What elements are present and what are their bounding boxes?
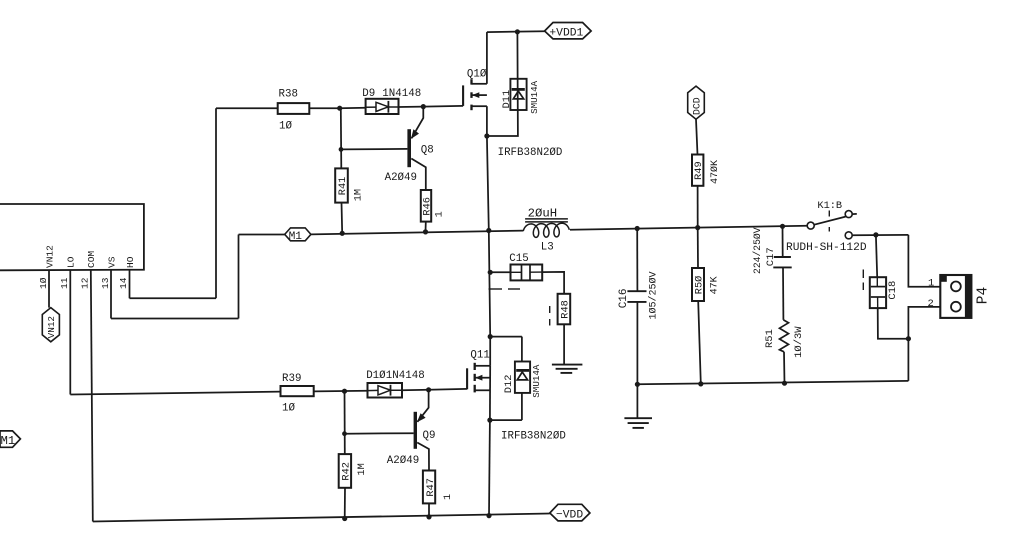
connector P4 black bar	[965, 276, 971, 318]
wire Q11 source to -VDD rail	[488, 420, 491, 515]
capacitor C15	[511, 265, 543, 281]
power port -VDD (hexagon)	[550, 504, 590, 521]
junction D10 right	[427, 388, 431, 392]
wire Q10 source column	[486, 106, 488, 136]
svg-text:VN12: VN12	[46, 316, 57, 338]
svg-text:−VDD: −VDD	[556, 509, 583, 521]
wire DCD to R49	[696, 119, 698, 154]
resistor R48	[558, 294, 571, 325]
junction R42 on -VDD rail	[343, 516, 347, 520]
svg-text:R47: R47	[425, 478, 437, 497]
svg-text:C17: C17	[765, 247, 777, 266]
svg-text:P4: P4	[976, 287, 992, 304]
junction C17 on M1 row	[780, 224, 784, 228]
svg-text:VS: VS	[106, 256, 117, 268]
wire D12 stem	[521, 337, 523, 362]
svg-text:47ØK: 47ØK	[709, 160, 721, 184]
svg-text:Q11: Q11	[470, 349, 489, 361]
wire +VDD1 row	[487, 30, 545, 33]
wire R41 top	[340, 108, 343, 168]
svg-text:+VDD1: +VDD1	[549, 27, 583, 39]
dashed mark left of C18	[862, 270, 864, 279]
diode D11 SMU14A	[510, 79, 526, 110]
wire C16 to ground	[636, 384, 638, 418]
relay K1:B NO stub	[852, 213, 857, 215]
Q11 source lead	[475, 389, 490, 391]
resistor R41	[335, 168, 348, 202]
Q11 body lead	[475, 377, 490, 379]
svg-text:VN12: VN12	[44, 245, 55, 268]
wire Q8 emitter	[412, 107, 424, 139]
junction R42 top tap	[342, 389, 346, 393]
wire pin14 HO down	[129, 270, 131, 299]
inductor L3 core bars	[525, 218, 568, 220]
svg-text:R42: R42	[341, 462, 353, 481]
junction node D9 left	[338, 106, 342, 110]
connector P4 pin1 circle	[951, 282, 961, 292]
junction Q8 base tap	[339, 148, 343, 152]
svg-text:R51: R51	[764, 329, 776, 348]
svg-text:A2Ø49: A2Ø49	[387, 455, 419, 467]
wire D11 stem	[487, 32, 518, 136]
svg-text:RUDH-SH-112D: RUDH-SH-112D	[786, 242, 867, 254]
transistor Q8 base bar	[407, 129, 411, 167]
svg-text:13: 13	[100, 277, 111, 289]
inductor L3	[523, 223, 569, 237]
transistor Q9 base bar	[414, 412, 417, 449]
Q10 body lead	[472, 94, 487, 96]
wire D9 anode	[340, 107, 366, 109]
svg-text:R48: R48	[560, 300, 572, 319]
junction C18 top	[874, 233, 878, 237]
junction R50 on bottom rail	[699, 382, 703, 386]
junction C16 rail	[635, 382, 639, 386]
wire Q8 base	[341, 148, 407, 151]
svg-text:DCD: DCD	[692, 97, 703, 115]
Q11 drain lead	[475, 365, 491, 367]
resistor R50	[692, 268, 704, 301]
wire R39 left from LO	[70, 392, 280, 395]
wire M1 column to Q11	[489, 231, 490, 366]
junction C18 bottom on riser	[906, 337, 910, 341]
junction R41 on M1 row	[340, 231, 344, 235]
junction Q9 base tap	[343, 432, 347, 436]
wire R51 bottom	[783, 352, 786, 383]
diode D10 1N4148	[368, 383, 403, 398]
wire P4 pin2 to bottom rail	[908, 307, 940, 381]
wire R46 bottom	[425, 222, 427, 232]
svg-text:1M: 1M	[356, 463, 368, 475]
svg-text:HO: HO	[125, 256, 136, 268]
junction Q11 on -VDD rail	[487, 514, 491, 518]
svg-text:C18: C18	[887, 281, 899, 300]
wire gate lead Q10	[423, 105, 463, 108]
relay K1:B common contact	[807, 222, 814, 229]
wire C16 bottom	[636, 302, 638, 384]
svg-text:1Ø/3W: 1Ø/3W	[793, 326, 805, 358]
wire D12 to Q11 source	[490, 419, 522, 421]
arrow Q9 emitter	[417, 413, 426, 422]
svg-text:1N4148: 1N4148	[382, 88, 421, 100]
wire pin12 COM down	[91, 270, 93, 522]
wire R39 to D10	[314, 390, 368, 393]
svg-text:K1:B: K1:B	[817, 200, 842, 212]
wire VS riser	[238, 235, 240, 319]
wire D12 top branch	[490, 336, 522, 338]
svg-text:1: 1	[434, 211, 446, 217]
wire R42 top	[344, 391, 346, 454]
relay K1:B NC contact	[845, 232, 852, 239]
relay K1:B NO contact	[845, 211, 852, 218]
wire relay output row	[852, 234, 908, 236]
relay K1:B armature	[814, 217, 845, 225]
arrow Q11 body	[475, 375, 482, 381]
svg-text:Q1Ø: Q1Ø	[467, 69, 487, 81]
junction R49 R50 on M1 row	[696, 226, 700, 230]
resistor R46	[421, 190, 431, 222]
svg-text:2ØuH: 2ØuH	[528, 206, 558, 220]
svg-text:C16: C16	[618, 288, 630, 308]
svg-text:1M: 1M	[352, 189, 364, 201]
wire Q11 body-source column	[489, 366, 491, 420]
wire gate lead Q11	[429, 388, 468, 391]
capacitor C16	[627, 290, 646, 292]
junction D12 branch	[488, 335, 492, 339]
resistor R39	[281, 386, 314, 396]
wire R48 to ground	[563, 324, 565, 364]
svg-text:R5Ø: R5Ø	[694, 276, 706, 295]
transistor Q10 channel	[470, 79, 472, 84]
ground symbol at C16	[624, 417, 652, 419]
svg-text:COM: COM	[86, 251, 97, 268]
junction R47 on -VDD rail	[427, 515, 431, 519]
svg-text:D12: D12	[503, 375, 515, 394]
svg-text:11: 11	[59, 277, 70, 289]
diode D12 SMU14A	[515, 362, 530, 393]
wire R41 bottom	[341, 203, 344, 234]
wire C15 right to R48	[542, 272, 564, 294]
wire pin13 VS down	[110, 270, 112, 319]
svg-text:12: 12	[80, 277, 91, 289]
wire C15 left	[490, 271, 510, 273]
svg-text:IRFB38N2ØD: IRFB38N2ØD	[501, 431, 566, 443]
wire R42 bottom	[344, 488, 346, 519]
svg-text:SMU14A: SMU14A	[529, 80, 540, 114]
svg-text:1Ø5/25ØV: 1Ø5/25ØV	[647, 271, 659, 319]
wire C17 top	[782, 226, 784, 257]
resistor R42	[339, 454, 351, 488]
arrow Q8 emitter	[411, 129, 419, 139]
wire R47 bottom	[428, 503, 430, 517]
svg-text:224/25ØV: 224/25ØV	[752, 227, 763, 274]
net label DCD (hexagon)	[688, 86, 705, 119]
junction Q11 source	[488, 418, 492, 422]
connector P4 body	[940, 275, 971, 318]
svg-text:2: 2	[928, 298, 934, 310]
dashed mark under C15	[489, 288, 503, 290]
wire Q9 collector	[417, 443, 429, 471]
wire pin11 LO down	[69, 270, 71, 395]
resistor R38	[278, 103, 310, 114]
wire VS horizontal	[111, 318, 239, 320]
wire bottom rail	[637, 381, 908, 384]
junction Q10 source / D11	[485, 134, 489, 138]
svg-text:IRFB38N2ØD: IRFB38N2ØD	[498, 147, 563, 159]
wire riser to M1 label	[239, 234, 285, 236]
wire HO riser to R38	[215, 108, 217, 298]
junction node D9 right	[421, 105, 425, 109]
wire Q9 base	[345, 432, 414, 435]
capacitor C18	[870, 277, 886, 308]
resistor R49	[692, 155, 703, 186]
junction C15 left	[488, 270, 492, 274]
wire D9 cathode to gate Q10	[399, 106, 424, 108]
ground symbol at R48	[552, 364, 583, 366]
svg-text:1Ø: 1Ø	[279, 120, 292, 132]
wire Q8 collector	[411, 159, 426, 191]
wire M1 row right of L3	[570, 226, 807, 230]
svg-text:14: 14	[118, 277, 129, 289]
junction C16 on M1 row	[635, 226, 639, 230]
wire C16 top	[636, 229, 638, 292]
wire C17 bottom	[782, 267, 784, 320]
wire C18 top stem	[876, 235, 877, 277]
resistor R51 (zigzag)	[780, 320, 789, 352]
svg-text:A2Ø49: A2Ø49	[385, 172, 417, 184]
svg-text:R49: R49	[693, 161, 705, 180]
wire riser to P4 pin1	[908, 235, 940, 287]
junction Q10 source column on M1 row	[487, 228, 491, 232]
svg-text:1Ø: 1Ø	[38, 277, 49, 289]
Q10 drain lead	[472, 83, 487, 85]
wire -VDD rail	[93, 514, 550, 522]
connector P4 corner mark	[941, 276, 947, 282]
connector P4 pin2 circle	[951, 302, 961, 312]
node M1 (net label hexagon)	[285, 228, 311, 241]
svg-text:R39: R39	[282, 373, 301, 385]
junction R51 on bottom rail	[782, 381, 786, 385]
transistor Q11 gate bar	[466, 368, 468, 389]
relay linkage dashes	[828, 211, 830, 217]
resistor R47	[423, 471, 435, 504]
IC U2 half-bridge driver (box, cut at left edge)	[0, 204, 144, 270]
net label VN12 (hexagon)	[42, 308, 59, 342]
svg-text:C15: C15	[509, 253, 528, 265]
svg-text:Q8: Q8	[421, 145, 434, 157]
wire R38 to D9	[309, 107, 339, 109]
wire pin10 VN12 stub	[48, 270, 50, 308]
transistor Q11 channel	[474, 363, 476, 370]
svg-text:Q9: Q9	[423, 430, 436, 442]
dashed mark left of R48	[549, 306, 551, 313]
wire R49 bottom	[697, 186, 699, 228]
svg-text:D9: D9	[362, 88, 375, 100]
svg-text:M1: M1	[1, 434, 16, 448]
svg-text:R38: R38	[279, 89, 298, 101]
off-page connector M1 (left edge)	[0, 431, 20, 447]
capacitor C17	[774, 256, 791, 258]
svg-text:LO: LO	[66, 256, 77, 268]
svg-text:1Ø: 1Ø	[282, 403, 295, 415]
wire HO horizontal	[130, 297, 217, 299]
diode D9 1N4148	[366, 99, 399, 114]
wire C18 bottom	[878, 308, 909, 339]
svg-text:SMU14A: SMU14A	[531, 364, 542, 398]
svg-text:D11: D11	[501, 90, 513, 109]
arrow Q10 body	[472, 92, 479, 98]
wire D12 bottom	[521, 393, 523, 420]
wire R38 left	[216, 107, 278, 109]
svg-text:47K: 47K	[710, 276, 721, 294]
wire R50 top	[697, 228, 699, 268]
junction D11 top	[515, 30, 519, 34]
wire R50 bottom	[698, 301, 701, 384]
svg-text:D1Ø: D1Ø	[366, 370, 386, 382]
Q10 source lead	[472, 105, 487, 107]
wire M1 row left of L3	[311, 231, 524, 235]
wire Q9 emitter	[417, 390, 428, 422]
power port +VDD1 (hexagon)	[545, 23, 592, 39]
svg-text:L3: L3	[541, 241, 554, 253]
svg-text:1N4148: 1N4148	[386, 370, 425, 382]
svg-text:M1: M1	[289, 231, 303, 243]
svg-text:1: 1	[442, 494, 454, 500]
transistor Q10 gate bar	[462, 85, 464, 106]
junction R46 on M1 row	[423, 230, 427, 234]
svg-text:R41: R41	[337, 177, 349, 196]
wire D10 cathode to gate Q11	[402, 389, 429, 391]
wire Q10 drain riser	[486, 32, 488, 84]
svg-text:R46: R46	[422, 197, 434, 216]
svg-text:1: 1	[928, 277, 934, 289]
